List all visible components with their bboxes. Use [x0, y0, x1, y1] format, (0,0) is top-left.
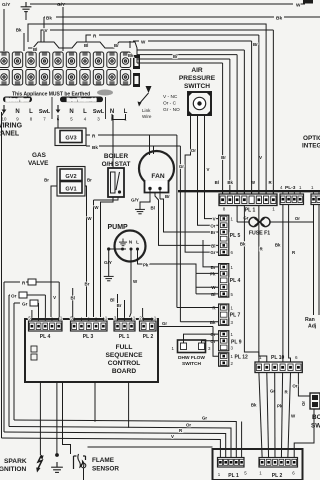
svg-text:V - NC: V - NC: [163, 94, 178, 100]
svg-text:Ran: Ran: [305, 317, 315, 323]
svg-text:Or: Or: [292, 384, 297, 389]
svg-text:SW: SW: [311, 423, 320, 430]
svg-text:V: V: [171, 434, 174, 439]
svg-text:PL 1: PL 1: [245, 208, 256, 214]
svg-text:Br: Br: [211, 230, 216, 235]
svg-text:Bl: Bl: [110, 298, 114, 303]
svg-text:Br: Br: [44, 178, 49, 183]
svg-text:GAS: GAS: [32, 152, 47, 159]
svg-text:8: 8: [223, 207, 226, 212]
svg-text:BOARD: BOARD: [112, 368, 136, 375]
svg-text:Bk: Bk: [240, 242, 246, 247]
svg-text:SWITCH: SWITCH: [184, 83, 210, 90]
svg-text:Gr: Gr: [210, 250, 215, 255]
svg-text:FLAME: FLAME: [92, 457, 115, 464]
svg-text:SwL: SwL: [39, 109, 51, 115]
svg-text:PRESSURE: PRESSURE: [179, 75, 216, 82]
svg-text:SWITCH: SWITCH: [182, 361, 201, 367]
svg-text:Bk: Bk: [46, 16, 52, 21]
svg-text:Or - C: Or - C: [163, 101, 177, 107]
svg-text:G/Y: G/Y: [57, 2, 66, 8]
svg-text:Or: Or: [186, 423, 191, 428]
svg-text:Bk: Bk: [92, 145, 98, 150]
svg-text:PL 12: PL 12: [235, 355, 248, 361]
svg-text:Bl: Bl: [33, 47, 37, 52]
svg-text:Br: Br: [253, 42, 258, 47]
svg-text:V: V: [259, 155, 262, 160]
svg-text:Bk: Bk: [275, 243, 281, 248]
svg-text:VALVE: VALVE: [28, 160, 49, 167]
svg-text:FUSE F1: FUSE F1: [249, 231, 270, 237]
svg-text:PL 4: PL 4: [230, 278, 241, 284]
svg-text:V: V: [53, 295, 56, 300]
svg-text:IGNITION: IGNITION: [0, 466, 27, 473]
svg-text:INTEG: INTEG: [302, 143, 320, 150]
svg-text:CONTROL: CONTROL: [108, 360, 141, 367]
svg-text:Bl: Bl: [211, 243, 215, 248]
svg-text:PL 5: PL 5: [230, 233, 241, 239]
svg-text:Or: Or: [210, 223, 215, 228]
svg-text:Br: Br: [87, 178, 92, 183]
svg-text:Bk: Bk: [251, 403, 257, 408]
svg-text:AIR: AIR: [191, 67, 203, 74]
svg-text:W: W: [141, 40, 146, 45]
svg-text:Br: Br: [165, 194, 170, 199]
svg-text:PL-3: PL-3: [285, 185, 296, 191]
svg-text:Br: Br: [117, 303, 122, 308]
svg-text:DHW FLOW: DHW FLOW: [178, 355, 205, 361]
svg-text:SENSOR: SENSOR: [92, 466, 119, 473]
svg-text:Br: Br: [173, 54, 178, 59]
svg-text:BOILER: BOILER: [104, 153, 129, 160]
svg-text:O/H STAT: O/H STAT: [102, 161, 131, 168]
svg-text:L: L: [83, 109, 87, 115]
svg-text:G/Y: G/Y: [131, 198, 139, 203]
svg-text:Link: Link: [142, 108, 151, 113]
svg-text:Bl: Bl: [151, 206, 155, 211]
svg-text:1: 1: [272, 207, 275, 212]
svg-text:Gr: Gr: [22, 302, 28, 307]
svg-text:PANEL: PANEL: [0, 131, 20, 138]
svg-text:Or: Or: [11, 294, 17, 299]
svg-text:Room Thermostat: Room Thermostat: [67, 98, 96, 102]
svg-text:L: L: [29, 109, 33, 115]
svg-text:Wire: Wire: [142, 114, 152, 119]
svg-text:Adj: Adj: [308, 324, 317, 330]
svg-text:PL 2: PL 2: [272, 473, 283, 479]
svg-text:PL 7: PL 7: [230, 313, 241, 319]
svg-text:GV3: GV3: [65, 136, 76, 142]
svg-text:PL 1: PL 1: [119, 334, 130, 340]
svg-text:Bl: Bl: [70, 296, 74, 301]
svg-text:PL 1: PL 1: [228, 473, 239, 479]
svg-text:Bk: Bk: [227, 180, 233, 185]
svg-text:Or: Or: [191, 148, 196, 153]
svg-text:PL 2: PL 2: [143, 334, 154, 340]
svg-text:Br: Br: [85, 282, 90, 287]
svg-text:Gr - NO: Gr - NO: [163, 107, 180, 113]
svg-text:N: N: [15, 109, 19, 115]
svg-text:Bl: Bl: [84, 43, 88, 48]
svg-text:L: L: [136, 240, 139, 245]
svg-text:SPARK: SPARK: [4, 458, 27, 465]
svg-text:V: V: [213, 217, 216, 222]
svg-text:10: 10: [2, 117, 7, 122]
svg-text:Pk: Pk: [210, 272, 216, 277]
svg-text:W: W: [296, 3, 301, 9]
svg-text:G/Y: G/Y: [104, 260, 112, 265]
svg-text:Bk: Bk: [16, 28, 22, 33]
svg-text:Br: Br: [114, 43, 119, 48]
svg-text:G/Y: G/Y: [2, 2, 11, 8]
svg-text:FULL: FULL: [116, 344, 133, 351]
svg-text:SwL: SwL: [93, 109, 105, 115]
svg-text:6: 6: [295, 355, 298, 360]
svg-text:FAN: FAN: [151, 173, 164, 180]
svg-text:Br: Br: [221, 155, 226, 160]
svg-text:Bk: Bk: [128, 53, 134, 58]
svg-text:SEQUENCE: SEQUENCE: [105, 352, 143, 359]
svg-text:Br: Br: [211, 265, 216, 270]
svg-text:Or: Or: [301, 401, 306, 406]
svg-text:GV2: GV2: [65, 174, 76, 180]
svg-text:External Timer: External Timer: [6, 98, 30, 102]
svg-text:Gr: Gr: [162, 321, 167, 326]
svg-text:Gr: Gr: [179, 164, 184, 169]
svg-text:PL 4: PL 4: [40, 334, 51, 340]
svg-text:GV1: GV1: [65, 187, 76, 193]
svg-text:Or: Or: [295, 216, 300, 221]
svg-text:V: V: [207, 167, 210, 172]
svg-text:PL 3: PL 3: [83, 334, 94, 340]
svg-text:N: N: [69, 109, 73, 115]
svg-text:Bk: Bk: [276, 16, 282, 22]
svg-text:OPTIO: OPTIO: [303, 135, 320, 142]
svg-text:Bl: Bl: [215, 180, 219, 185]
svg-text:Gr: Gr: [202, 416, 207, 421]
svg-text:PUMP: PUMP: [108, 224, 129, 231]
svg-text:BO: BO: [312, 414, 320, 421]
svg-text:WIRING: WIRING: [0, 123, 23, 130]
svg-text:Pk: Pk: [143, 263, 149, 268]
